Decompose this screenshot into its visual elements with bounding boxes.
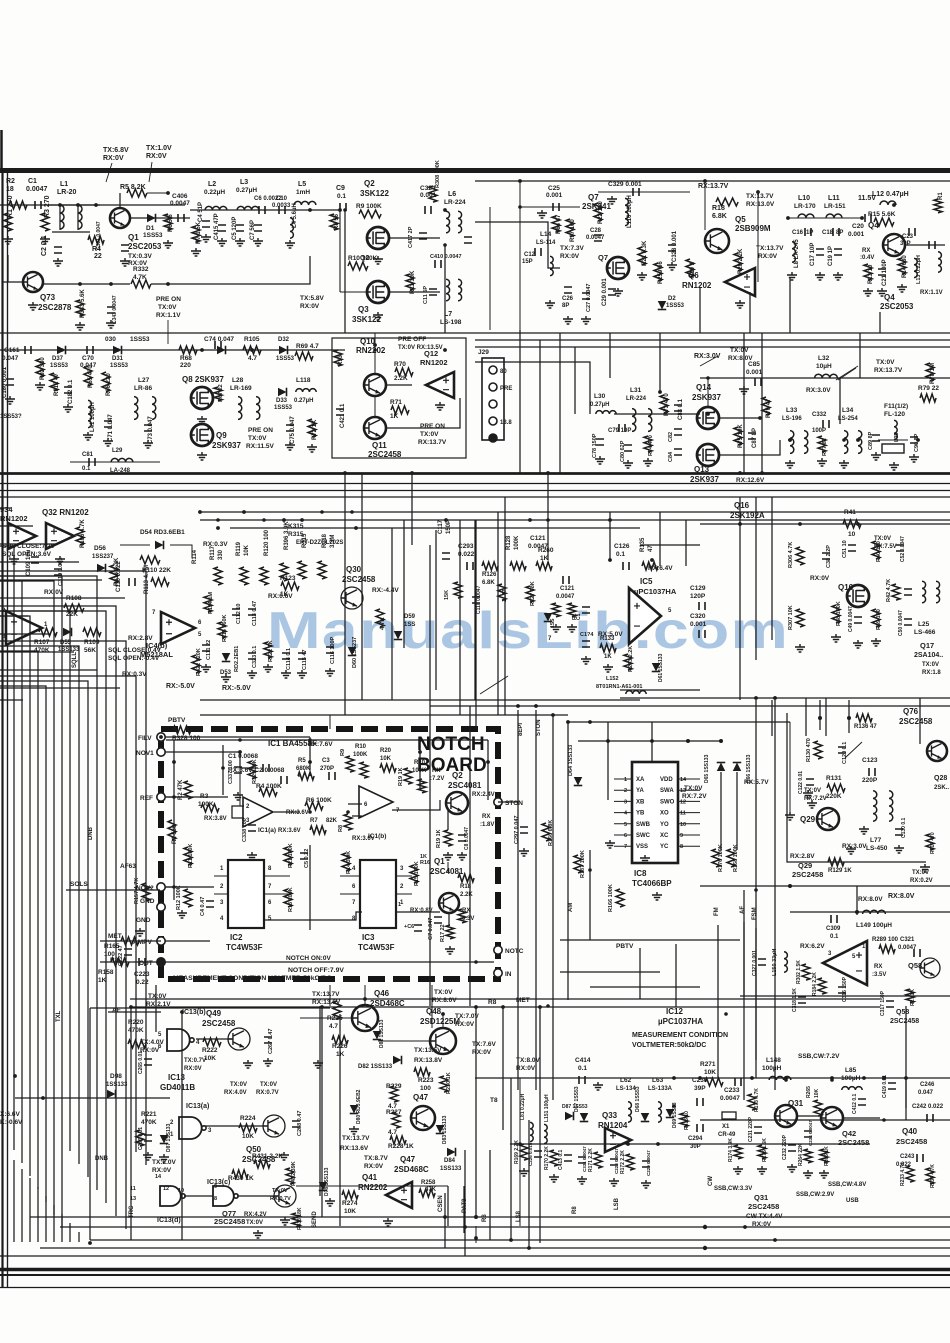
ground — [263, 664, 273, 672]
notch wire — [309, 845, 311, 930]
diode D5x — [544, 613, 553, 622]
junction — [784, 1078, 788, 1082]
inductor L31b — [648, 409, 652, 432]
svg-text:0.1: 0.1 — [82, 466, 91, 472]
svg-text:DNB: DNB — [95, 1156, 109, 1162]
op-amp Q6 RN1202 — [725, 268, 755, 296]
svg-text:R113 4.7M: R113 4.7M — [144, 565, 150, 594]
ground — [877, 288, 887, 296]
svg-text:0.22: 0.22 — [136, 979, 149, 986]
IC8 TC4066BP — [632, 762, 678, 863]
resistor R19 1K — [444, 830, 452, 846]
svg-text:D98: D98 — [110, 1073, 122, 1080]
resistor R65 — [84, 366, 92, 386]
svg-text:470K: 470K — [141, 1119, 157, 1126]
svg-text:82K: 82K — [326, 818, 338, 824]
capacitor C6 — [259, 206, 265, 214]
svg-text:R106 4.7K: R106 4.7K — [80, 519, 86, 548]
svg-text:C268 0.47: C268 0.47 — [297, 1111, 303, 1136]
capacitor C38 — [822, 553, 830, 559]
svg-text:10: 10 — [848, 531, 856, 538]
ground — [603, 664, 613, 672]
capacitor C8 62P — [464, 237, 472, 243]
vertical wire — [504, 497, 506, 715]
resistor R21 — [638, 247, 646, 265]
resistor R263 — [624, 654, 632, 670]
svg-text:Q46: Q46 — [374, 989, 390, 998]
junction — [300, 518, 304, 522]
resistor R129 — [828, 858, 844, 866]
svg-text:R7: R7 — [310, 818, 318, 824]
junction — [338, 208, 342, 212]
wire — [190, 209, 340, 211]
wire — [719, 417, 760, 419]
resistor R166 — [616, 889, 624, 907]
wire AF row — [108, 1011, 161, 1013]
svg-text:2SD468C: 2SD468C — [370, 999, 405, 1008]
svg-text:680K: 680K — [296, 766, 311, 772]
svg-text:R7 1.5K: R7 1.5K — [196, 221, 202, 244]
junction — [518, 179, 522, 183]
pad REF — [157, 793, 165, 801]
wire — [614, 834, 632, 836]
resistor R274 — [342, 1191, 358, 1199]
junction — [788, 438, 792, 442]
svg-text:R69 4.7: R69 4.7 — [296, 343, 319, 350]
svg-text:C84: C84 — [668, 451, 674, 462]
svg-text:R131: R131 — [826, 775, 842, 782]
svg-text:R75 10K: R75 10K — [738, 424, 744, 448]
svg-text:D81 1SS133: D81 1SS133 — [379, 1019, 385, 1048]
svg-text:L6: L6 — [448, 191, 456, 198]
resistor R230 — [440, 1076, 448, 1092]
resistor R20n — [380, 764, 396, 772]
svg-text:C246: C246 — [920, 1082, 935, 1088]
svg-text:9: 9 — [680, 833, 683, 839]
svg-text:TX:6.8V: TX:6.8V — [103, 147, 129, 154]
capacitor C232 — [788, 1145, 796, 1151]
junction — [546, 518, 550, 522]
ground Q50 — [279, 1152, 289, 1160]
diode D83 1SS133 — [436, 1125, 445, 1134]
resistor R12n — [184, 889, 192, 907]
svg-text:0.0047: 0.0047 — [720, 1095, 740, 1102]
wire — [364, 985, 366, 1006]
svg-text:10K: 10K — [244, 544, 250, 556]
svg-text:R422 120K: R422 120K — [196, 648, 202, 676]
junction — [216, 518, 220, 522]
capacitor C109 — [31, 557, 39, 563]
svg-text:RX:7.6V: RX:7.6V — [308, 741, 333, 748]
svg-text:R289 100: R289 100 — [872, 937, 899, 943]
transistor Q77 2SC2458 — [274, 1185, 296, 1207]
junction — [784, 1076, 788, 1080]
svg-text:D87 1SS53: D87 1SS53 — [562, 1104, 588, 1110]
wire — [520, 206, 580, 208]
svg-text:R136 47: R136 47 — [854, 724, 877, 730]
svg-text:R170 2.2K: R170 2.2K — [544, 1146, 550, 1170]
svg-text:LS-254: LS-254 — [838, 416, 858, 422]
svg-text:M5218AL: M5218AL — [140, 650, 173, 659]
svg-text:RX:6.4V: RX:6.4V — [648, 565, 673, 572]
resistor R136 — [856, 714, 872, 722]
capacitor C122 — [806, 779, 814, 785]
capacitor C117 — [442, 553, 450, 559]
op-amp IC5 µPC1037HA — [629, 588, 661, 644]
resistor R78 — [926, 363, 934, 381]
ground — [40, 236, 50, 244]
transistor Q76 2SC2458 — [927, 741, 947, 761]
leader — [167, 320, 169, 344]
svg-text:RX:7.2V: RX:7.2V — [682, 793, 707, 800]
svg-text:C129: C129 — [690, 585, 706, 592]
ground — [909, 454, 919, 462]
capacitor C328 — [668, 245, 676, 251]
svg-text:R166 100K: R166 100K — [608, 884, 614, 912]
vertical wire — [699, 288, 701, 333]
svg-text:TX:1.0V: TX:1.0V — [146, 145, 172, 152]
svg-text:RN1204: RN1204 — [598, 1121, 628, 1130]
capacitor C226 — [534, 1151, 542, 1157]
bus feeder wire — [0, 669, 97, 671]
inductor L77a — [873, 791, 877, 821]
junction — [650, 739, 654, 743]
svg-text:R77 82: R77 82 — [822, 438, 828, 456]
inductor L5 — [294, 201, 316, 205]
svg-text:SWO: SWO — [660, 799, 675, 805]
ground — [201, 664, 211, 672]
junction — [773, 696, 777, 700]
svg-text:RX:0V: RX:0V — [810, 575, 830, 582]
capacitor C114 — [282, 653, 290, 659]
resistor R105 — [243, 346, 261, 354]
wire — [7, 255, 9, 282]
op-amp IC12 µPC1037HA — [823, 941, 867, 985]
svg-text:LSB: LSB — [614, 1197, 620, 1210]
ground — [757, 1166, 767, 1174]
resistor R21n — [284, 847, 292, 865]
resistor R18n — [458, 874, 474, 882]
bus feeder wire — [0, 687, 120, 689]
svg-text:1SS53: 1SS53 — [50, 363, 69, 369]
svg-text:R17 22: R17 22 — [440, 924, 446, 942]
capacitor C406 — [178, 214, 184, 222]
junction — [566, 720, 570, 724]
ground — [846, 846, 856, 854]
svg-text:SSB,CW:3.3V: SSB,CW:3.3V — [714, 1186, 752, 1192]
svg-text:C19 1P: C19 1P — [828, 246, 834, 266]
svg-text:R8: R8 — [572, 1206, 578, 1214]
ground — [595, 456, 605, 464]
svg-text:0.0047: 0.0047 — [170, 200, 190, 207]
diode D81 1SS133 — [373, 1031, 382, 1040]
ground — [795, 644, 805, 652]
svg-text:R71: R71 — [390, 399, 402, 406]
wire — [678, 834, 700, 836]
junction — [847, 716, 851, 720]
svg-text:C2 0.1: C2 0.1 — [41, 235, 48, 256]
notch wire — [419, 740, 421, 788]
junction — [172, 885, 176, 889]
svg-text:C74 0.047: C74 0.047 — [204, 336, 234, 343]
resistor R6 — [164, 214, 172, 230]
junction — [350, 510, 354, 514]
ground — [35, 382, 45, 390]
svg-text:12: 12 — [163, 1186, 169, 1192]
svg-text:R19 1K: R19 1K — [436, 829, 442, 848]
svg-text:R123: R123 — [280, 575, 296, 582]
capacitor C20 — [865, 214, 871, 222]
vertical wire — [739, 497, 741, 700]
junction — [343, 471, 347, 475]
capacitor C318 — [798, 997, 806, 1003]
inductor L63 — [658, 1102, 661, 1122]
bus wire — [53, 1205, 55, 1242]
svg-text:C17 10P: C17 10P — [810, 243, 816, 266]
svg-text:Q47: Q47 — [400, 1155, 416, 1164]
svg-text:C4 0.47: C4 0.47 — [200, 897, 206, 916]
svg-text:R228 1K: R228 1K — [388, 1143, 414, 1150]
wire — [170, 545, 192, 558]
vertical wire — [539, 340, 541, 473]
svg-text:MET: MET — [516, 997, 530, 1004]
resistor R5 — [127, 189, 147, 197]
junction — [320, 1005, 324, 1009]
inductor L35 — [894, 420, 897, 439]
vertical wire AF — [743, 922, 745, 996]
ground — [325, 668, 335, 676]
svg-text:IC13(b): IC13(b) — [182, 1009, 206, 1016]
svg-text:1SS53: 1SS53 — [130, 336, 150, 343]
resistor R126 — [482, 562, 498, 570]
bus wire — [0, 611, 106, 1203]
svg-text:IC1(a): IC1(a) — [258, 827, 276, 834]
capacitor C12 — [535, 248, 541, 256]
resistor R221 — [136, 1130, 144, 1146]
svg-text:10K: 10K — [242, 1133, 254, 1140]
svg-text:R15 5.6K: R15 5.6K — [868, 211, 896, 218]
wire — [130, 217, 190, 219]
svg-text:D59: D59 — [404, 614, 416, 620]
bus feeder wire — [0, 525, 33, 527]
resistor R308 — [429, 186, 437, 202]
capacitor C323 — [248, 653, 256, 659]
band1 input rail — [0, 204, 185, 206]
NAND gate IC13(c) — [213, 1186, 234, 1206]
capacitor C234 — [804, 1131, 812, 1137]
ground — [519, 1168, 529, 1176]
capacitor C28 — [594, 235, 602, 241]
vertical wire FM — [717, 925, 719, 1078]
inductor L13 — [914, 258, 917, 277]
ground — [163, 240, 173, 248]
junction — [754, 696, 758, 700]
svg-text:TX:0V: TX:0V — [912, 870, 929, 876]
bottom bus wire — [30, 1216, 950, 1218]
band2 input rail — [0, 349, 345, 351]
svg-text:RX:3.0V: RX:3.0V — [806, 387, 831, 394]
svg-text:R105: R105 — [244, 336, 260, 343]
svg-text:R302 1.5K: R302 1.5K — [796, 960, 802, 984]
svg-text:R259 56: R259 56 — [658, 261, 664, 284]
svg-text:1K: 1K — [98, 977, 107, 984]
svg-text:D32: D32 — [278, 337, 290, 343]
svg-text:LR-151: LR-151 — [824, 203, 846, 210]
transistor Q30 2SC2458 — [341, 587, 363, 609]
ground — [733, 1166, 743, 1174]
svg-text:TX:13.7V: TX:13.7V — [342, 1135, 370, 1142]
svg-text:R78 1M: R78 1M — [930, 363, 936, 384]
wire — [678, 789, 700, 791]
vertical wire CSEN — [447, 1186, 449, 1226]
wire — [678, 778, 700, 780]
svg-text:10µH: 10µH — [816, 363, 832, 370]
capacitor C222 — [124, 949, 132, 955]
vertical wire — [651, 722, 653, 762]
svg-text:R333 5.6K: R333 5.6K — [80, 289, 86, 318]
svg-text:C320: C320 — [690, 613, 706, 620]
junction — [882, 1118, 886, 1122]
vertical wire PAT8 — [463, 1186, 465, 1233]
svg-text:2SC2458: 2SC2458 — [838, 1138, 869, 1147]
svg-text:L118: L118 — [296, 377, 311, 384]
junction — [756, 190, 760, 194]
bus wire — [0, 686, 46, 1202]
pad NOV2 — [157, 883, 165, 891]
op-amp Q34 RN1202 — [8, 523, 36, 549]
svg-text:Q42: Q42 — [842, 1129, 856, 1138]
leader — [700, 356, 718, 366]
svg-text:2SC2458: 2SC2458 — [792, 870, 823, 879]
svg-text:L149 100µH: L149 100µH — [856, 922, 892, 929]
ground Q3 — [373, 312, 383, 320]
junction — [343, 208, 347, 212]
svg-text:1SS53: 1SS53 — [666, 303, 685, 309]
junction — [706, 412, 710, 416]
wire — [214, 875, 228, 877]
vertical wire — [609, 333, 611, 378]
resistor R28x — [906, 989, 914, 1003]
ground — [9, 556, 19, 564]
notch wire NOV2 — [166, 886, 214, 888]
svg-text:C113 0.47: C113 0.47 — [252, 601, 258, 626]
vertical wire — [856, 886, 858, 915]
svg-text:R16: R16 — [420, 860, 430, 866]
svg-text:R223: R223 — [418, 1077, 434, 1084]
svg-text:C328 0.001: C328 0.001 — [672, 230, 678, 262]
svg-text:3: 3 — [624, 799, 627, 805]
svg-text:µPC1037HA: µPC1037HA — [658, 1017, 703, 1026]
svg-text:0.1: 0.1 — [616, 551, 625, 558]
resistor R11n — [184, 847, 192, 865]
resistor R107 — [39, 628, 57, 636]
svg-text:C50 0.0047: C50 0.0047 — [898, 610, 904, 636]
svg-text:C182 0.1: C182 0.1 — [68, 379, 74, 404]
resistor R10 — [348, 262, 368, 270]
svg-text:C117: C117 — [438, 519, 444, 534]
ground — [191, 248, 201, 256]
svg-text:TX:13.5V: TX:13.5V — [414, 1047, 442, 1054]
wire — [614, 812, 632, 814]
svg-text:R14 680: R14 680 — [902, 255, 908, 278]
svg-text:R2.. 1K: R2.. 1K — [910, 989, 916, 1006]
svg-text:TX:13.7V: TX:13.7V — [756, 245, 784, 252]
vertical wire — [528, 1120, 530, 1248]
svg-text:TC4W53F: TC4W53F — [358, 943, 395, 952]
resistor R20 — [734, 253, 742, 271]
ground — [247, 670, 257, 678]
svg-text:NOTCH: NOTCH — [417, 734, 485, 755]
svg-text::1.8V: :1.8V — [480, 822, 494, 828]
leader line — [845, 742, 862, 758]
transistor Q58 — [920, 958, 940, 978]
svg-text:47K: 47K — [425, 1187, 437, 1193]
svg-text:RX:8.0V: RX:8.0V — [888, 893, 915, 900]
svg-text:RN1202: RN1202 — [682, 281, 712, 290]
inductor L85 — [842, 1087, 862, 1090]
vertical wire — [319, 1006, 321, 1196]
svg-text:YC: YC — [660, 844, 669, 850]
notch top internal wire — [166, 739, 488, 741]
resistor R332 — [131, 280, 151, 288]
svg-text:R65 470: R65 470 — [88, 365, 94, 388]
ground Q2 source — [373, 256, 383, 264]
svg-text:C25: C25 — [548, 185, 560, 192]
svg-text:LR-224: LR-224 — [626, 396, 647, 402]
op-amp IC4(b) M5218AL — [161, 612, 195, 644]
ground — [313, 1060, 323, 1068]
transistor Q16 2SK192A — [847, 585, 869, 607]
junction — [703, 1246, 707, 1250]
wire OUT to IN — [165, 961, 494, 963]
junction — [842, 438, 846, 442]
resistor R15n — [410, 865, 418, 883]
resistor R329 — [248, 761, 256, 779]
vertical wire — [519, 330, 521, 473]
svg-text:TRC: TRC — [129, 1205, 135, 1218]
svg-text:RX: RX — [862, 248, 870, 254]
ground — [581, 656, 591, 664]
NAND gate IC13(b) — [167, 1029, 190, 1051]
svg-text:Q13: Q13 — [694, 465, 710, 474]
svg-text:IN: IN — [505, 971, 512, 978]
junction — [238, 750, 242, 754]
wire — [392, 800, 440, 810]
resistor R7 — [192, 226, 200, 242]
junction — [180, 1010, 184, 1014]
capacitor C50 — [904, 619, 912, 625]
svg-text:39P: 39P — [694, 1085, 706, 1092]
resistor R226 — [332, 1036, 348, 1044]
inductor L150 — [784, 952, 787, 972]
ground — [445, 946, 455, 954]
bus feeder wire — [0, 651, 74, 653]
junction — [116, 348, 120, 352]
vertical wire — [344, 473, 346, 715]
svg-text:NOTC: NOTC — [505, 948, 524, 955]
svg-text:934: 934 — [0, 505, 13, 514]
resistor R120 — [260, 567, 268, 585]
diode D66 1SS133 — [733, 763, 742, 772]
ground — [577, 1176, 587, 1184]
ground — [143, 1152, 153, 1160]
inductor L33b — [804, 431, 808, 454]
svg-text:0.047: 0.047 — [918, 1090, 934, 1096]
svg-text:3SK122: 3SK122 — [360, 189, 389, 198]
wire — [147, 192, 168, 194]
svg-text:1K: 1K — [844, 868, 852, 874]
diode D59 — [394, 631, 403, 640]
